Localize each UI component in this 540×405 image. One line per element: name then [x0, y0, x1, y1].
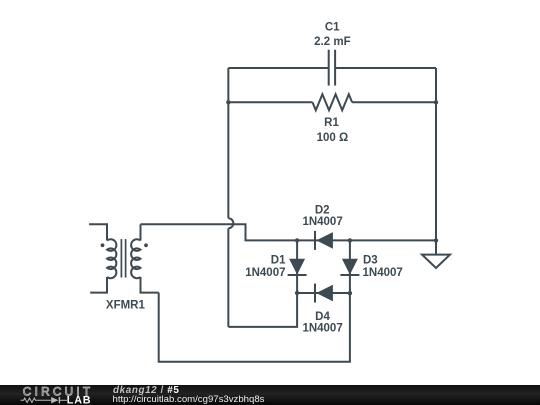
wire crossover hop (left vertical hops over secondary wire): [228, 218, 233, 228]
transformer XFMR1: [89, 224, 159, 292]
secondary winding: [131, 239, 140, 278]
wire top-right horizontal (C1 right lead): [335, 67, 436, 69]
svg-text:2.2 mF: 2.2 mF: [314, 36, 350, 48]
wire bridge left leg: [296, 240, 298, 293]
svg-text:LAB: LAB: [67, 395, 92, 405]
wire bridge bottom rail: [297, 292, 350, 294]
wire left vertical from top loop corner down to crossover hop: [227, 68, 229, 218]
primary bottom terminal stub: [90, 277, 107, 293]
wire R1 right lead: [352, 101, 436, 103]
svg-text:D4: D4: [315, 311, 330, 323]
primary winding: [107, 239, 116, 278]
wire R1 left lead: [228, 101, 312, 103]
footer bar: [0, 385, 540, 405]
junction dot ground node: [434, 238, 438, 242]
svg-text:D3: D3: [363, 255, 378, 267]
svg-text:1N4007: 1N4007: [302, 216, 342, 228]
svg-text:C1: C1: [325, 22, 340, 34]
wire right vertical from top loop to ground node: [435, 68, 437, 240]
svg-text:R1: R1: [324, 117, 339, 129]
CircuitLab logo: [0, 385, 110, 405]
junction dot bridge top-left: [295, 238, 299, 242]
wire bottom-left horizontal to bridge bottom-left node: [228, 293, 297, 327]
svg-text:1N4007: 1N4007: [363, 267, 403, 279]
secondary bottom terminal stub: [141, 277, 159, 293]
svg-text:100 Ω: 100 Ω: [317, 132, 349, 144]
footer text dkang12 / #5: [113, 386, 179, 396]
transformer core: [120, 239, 122, 277]
junction dot bridge top-right: [348, 238, 352, 242]
footer url: [113, 395, 265, 405]
diode D4: [315, 284, 333, 303]
svg-text:D2: D2: [315, 205, 330, 217]
capacitor C1: [329, 50, 335, 86]
diode D3: [340, 259, 359, 275]
junction dot bridge bottom-left: [295, 291, 299, 295]
ground symbol: [422, 240, 450, 268]
wire bridge top rail: [297, 239, 436, 241]
junction dot right (R1/C1 right node): [434, 100, 438, 104]
primary phase dot: [101, 243, 105, 247]
secondary top terminal stub: [140, 224, 142, 240]
wire bridge right leg: [349, 240, 351, 293]
wire left vertical below hop down to bottom-left corner: [227, 228, 229, 327]
diode D2: [315, 231, 333, 250]
resistor R1: [313, 94, 353, 110]
wire secondary bottom to bridge bottom-right node: [159, 293, 350, 362]
diode D1: [288, 259, 307, 275]
svg-text:XFMR1: XFMR1: [106, 300, 146, 312]
junction dot bridge bottom-right: [348, 291, 352, 295]
svg-text:1N4007: 1N4007: [302, 323, 342, 335]
wire top-left horizontal (C1 left lead): [228, 67, 328, 69]
svg-text:D1: D1: [271, 255, 286, 267]
secondary phase dot: [144, 243, 148, 247]
wire secondary top to bridge (with corner): [141, 224, 298, 240]
junction dot left (R1/C1 left node): [226, 100, 230, 104]
svg-text:1N4007: 1N4007: [245, 267, 285, 279]
primary top terminal stub: [89, 224, 107, 240]
